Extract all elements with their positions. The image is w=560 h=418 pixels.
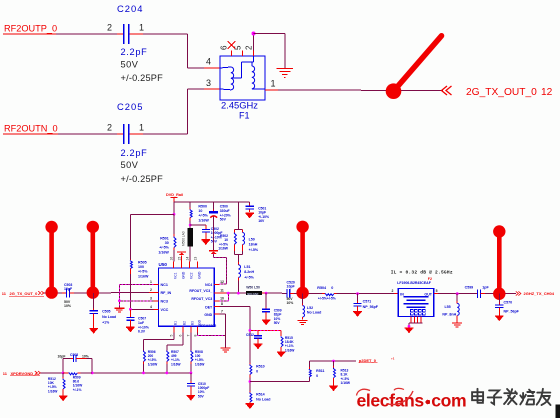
svg-text:50V: 50V (198, 394, 205, 398)
svg-text:1/16W: 1/16W (171, 362, 181, 366)
capacitor C508 (series) (58, 353, 89, 362)
wire bead to IC pin 14 (189, 246, 191, 261)
wire R504 to filter F2 (337, 293, 399, 295)
capacitor C510 (187, 373, 209, 399)
capacitor C502 (190, 225, 222, 244)
svg-text:2.2pF: 2.2pF (121, 47, 148, 57)
ground flat for NC pins (114, 307, 124, 309)
svg-text:+/-0.25PF: +/-0.25PF (121, 73, 164, 83)
ground (277, 69, 294, 78)
svg-text:7: 7 (187, 335, 191, 337)
wire IC ground pins (198, 314, 226, 348)
svg-text:+/-10%: +/-10% (138, 325, 149, 329)
wire IC bottom pins to resistors (144, 333, 191, 350)
wire F2 out (434, 292, 477, 295)
wire to R505 branch (130, 214, 174, 259)
wire F1 pin2 to ground net (253, 34, 255, 51)
resistor R515 (281, 336, 295, 353)
capacitor C501 (245, 202, 269, 223)
svg-text:100: 100 (138, 265, 144, 269)
filter F2 ground pins (408, 316, 423, 327)
capacitor C205 (107, 101, 163, 184)
svg-text:1/16W: 1/16W (138, 274, 149, 278)
svg-text:1/16W: 1/16W (285, 348, 295, 352)
svg-text:1/16W: 1/16W (195, 362, 205, 366)
svg-text:IL = 0.32 dB @ 2.5GHz: IL = 0.32 dB @ 2.5GHz (391, 269, 453, 275)
svg-text:C204: C204 (117, 3, 143, 14)
ground for R513 (329, 386, 338, 391)
svg-text:R514: R514 (256, 393, 265, 397)
svg-text:2: 2 (245, 45, 254, 50)
svg-text:10pF: 10pF (58, 354, 66, 358)
capacitor C520 (series) (287, 280, 296, 304)
ground for IC (221, 347, 231, 349)
svg-text:18nH: 18nH (249, 243, 258, 247)
wire bead to C520 (262, 292, 287, 295)
resistor R513 (334, 361, 351, 386)
svg-text:+/-5%: +/-5% (198, 214, 208, 218)
svg-text:C508: C508 (70, 353, 78, 357)
svg-text:F2: F2 (428, 277, 432, 281)
svg-text:50V: 50V (274, 321, 281, 325)
svg-text:B2: B2 (183, 321, 187, 325)
IC top pin stubs 16 15 14 13 (169, 257, 201, 279)
svg-text:11: 11 (220, 289, 224, 293)
wire DET pin 8 (220, 307, 252, 363)
wire R501 to IC pin 16 (173, 250, 175, 262)
resistor R502 and inductor L50 parallel (218, 202, 259, 255)
svg-text:F1: F1 (239, 111, 250, 121)
resistor R500 (190, 202, 209, 222)
ground for L52 (298, 321, 308, 325)
svg-text:6: 6 (179, 335, 183, 337)
wire XPDRVGND rail (92, 372, 192, 375)
highlight marker 2 (87, 221, 99, 299)
svg-text:NP_56pF: NP_56pF (504, 310, 520, 314)
svg-text:C571: C571 (363, 299, 372, 303)
svg-text:No Load: No Load (256, 397, 270, 401)
svg-text:C205: C205 (117, 101, 143, 112)
wire F1 pin1 to 2G_TX_OUT_0 (265, 89, 443, 92)
svg-text:5: 5 (234, 45, 243, 50)
svg-text:DVD_Rail: DVD_Rail (166, 193, 183, 197)
svg-text:VC2: VC2 (189, 272, 193, 279)
svg-text:0: 0 (316, 374, 318, 378)
svg-text:10: 10 (198, 209, 202, 213)
svg-text:3: 3 (206, 78, 211, 88)
svg-text:10pF: 10pF (64, 287, 73, 291)
inductor L52 (303, 293, 322, 319)
svg-text:GND: GND (198, 271, 202, 279)
wire power bus (174, 202, 250, 214)
svg-text:0: 0 (331, 286, 333, 290)
svg-text:13: 13 (194, 257, 198, 261)
IC left pin stubs 1 2 3 4 (150, 280, 171, 312)
svg-text:XPDRVGND_C: XPDRVGND_C (11, 371, 39, 376)
ground for L55 (452, 322, 462, 324)
resistor R512 (48, 373, 65, 396)
wire C205 to F1 pin 3 (129, 89, 220, 134)
capacitor C204 (107, 3, 163, 83)
capacitor C571 (354, 294, 379, 312)
svg-text:2GHZ_TX_CH04: 2GHZ_TX_CH04 (524, 291, 555, 296)
capacitor C509 (262, 293, 282, 325)
resistor R501 (158, 214, 176, 254)
svg-text:com: com (431, 390, 466, 410)
wire R505 to VCC pin (129, 274, 131, 309)
ground for C511 (254, 344, 263, 349)
highlight marker 4 (493, 225, 505, 300)
svg-text:2: 2 (150, 288, 152, 292)
capacitor C505 (89, 293, 116, 329)
svg-text:5: 5 (436, 289, 438, 293)
ground for C505 (89, 329, 98, 334)
wire VCC pin 4 (129, 308, 154, 317)
svg-text:6.3V: 6.3V (138, 330, 146, 334)
ground for C570 (495, 316, 504, 321)
power flag at IC pin 15 (177, 252, 186, 262)
svg-text:+/-5%: +/-5% (249, 248, 259, 252)
resistor R510 (250, 363, 265, 378)
svg-text:No Load: No Load (307, 311, 321, 315)
svg-text:NOLOAD: NOLOAD (247, 292, 258, 296)
off-page connector 2GHZ_TX_CH04 (516, 291, 555, 296)
svg-text:C505: C505 (102, 309, 110, 313)
svg-text:15: 15 (177, 257, 181, 261)
filter F2 LF1906 (392, 277, 438, 316)
svg-text:W50 L50: W50 L50 (246, 286, 260, 290)
svg-text:2.2pF: 2.2pF (121, 148, 148, 158)
svg-text:1: 1 (139, 123, 144, 133)
resistor R507 (167, 350, 182, 373)
svg-text:L51: L51 (244, 265, 250, 269)
wire NC4 pin 12 loop to power (214, 254, 227, 284)
svg-text:L50: L50 (249, 238, 255, 242)
svg-text:C500: C500 (220, 205, 228, 209)
svg-text:LF1906-B2R45CEAF: LF1906-B2R45CEAF (397, 281, 432, 285)
svg-text:B1: B1 (174, 321, 178, 325)
svg-text:M500 LA0: M500 LA0 (181, 231, 185, 246)
ground for C502 (202, 240, 211, 245)
svg-text:L55: L55 (444, 305, 450, 309)
capacitor C599 (series) (465, 285, 490, 298)
net label 11 2G_TX_OUT_0 (2, 291, 44, 296)
svg-text:1uF: 1uF (138, 321, 144, 325)
power flag for C500/NC4 net (209, 250, 218, 252)
svg-text:GND: GND (204, 313, 212, 317)
svg-text:1pF: 1pF (482, 285, 489, 289)
IC U50 (159, 262, 217, 328)
wire pin 10 loop (220, 293, 229, 301)
svg-text:RFOUT_VC3: RFOUT_VC3 (191, 297, 212, 301)
resistor R509 (63, 373, 92, 392)
inductor L55 (442, 294, 459, 323)
svg-text:1/16W: 1/16W (148, 362, 158, 366)
svg-text:10%: 10% (287, 301, 294, 305)
svg-text:1: 1 (139, 23, 144, 33)
svg-text:C507: C507 (138, 317, 146, 321)
svg-text:NC1: NC1 (161, 283, 168, 287)
svg-text:R505: R505 (138, 261, 147, 265)
filter F1 2.45GHz (206, 41, 276, 120)
ground for C510 (187, 396, 196, 401)
ferrite bead W50 (246, 286, 262, 296)
resistor R505 (130, 260, 149, 279)
svg-text:14: 14 (185, 257, 189, 261)
logo chinese characters (472, 389, 550, 405)
svg-text:50V: 50V (121, 160, 139, 170)
svg-text:GND: GND (181, 271, 185, 279)
IC bottom pin stubs (170, 319, 202, 336)
wire junction to ground (254, 34, 285, 69)
svg-text:C570: C570 (504, 301, 513, 305)
wire R500 to bead (189, 221, 192, 229)
svg-text:10pF: 10pF (287, 284, 296, 288)
svg-text:+/-1%: +/-1% (73, 388, 82, 392)
svg-text:+/-5%: +/-5% (244, 275, 254, 279)
highlight marker (red annotation) (386, 36, 442, 99)
black corner mark (556, 405, 560, 418)
ground for R512 (59, 396, 68, 401)
resistor R506 (144, 350, 159, 373)
wire XPDRVGND input (41, 359, 94, 375)
net label RF2OUTN_0 (3, 124, 58, 134)
svg-text:10%: 10% (64, 304, 72, 308)
resistor R504 (317, 286, 336, 301)
svg-text:8: 8 (221, 302, 223, 306)
svg-text:+/-5%: +/-5% (159, 246, 169, 250)
svg-text:NC3: NC3 (161, 300, 168, 304)
svg-text:+/-20%: +/-20% (220, 213, 231, 217)
power flag DVD_Rail (166, 193, 183, 202)
svg-text:2: 2 (392, 289, 394, 293)
wire C599 to output (480, 293, 516, 295)
node junction (252, 32, 256, 36)
wire C520 to R504 (290, 292, 322, 294)
svg-text:+/-5%: +/-5% (138, 270, 148, 274)
svg-text:1/16W: 1/16W (48, 389, 58, 393)
svg-text:6: 6 (220, 45, 229, 50)
resistor R511 (309, 361, 324, 378)
wire input to C503 (44, 292, 66, 294)
wire RF2OUTN to C205 (58, 133, 123, 135)
wire DET branch (250, 330, 281, 336)
capacitor C507 (126, 317, 148, 334)
ground for R514 (246, 404, 255, 409)
svg-text:U50: U50 (159, 262, 168, 267)
svg-text:12: 12 (220, 280, 224, 284)
capacitor C570 (495, 294, 519, 316)
svg-text:+1: +1 (391, 357, 395, 361)
svg-text:R500: R500 (198, 205, 207, 209)
capacitor C503 (series) (64, 283, 73, 308)
svg-text:No Load: No Load (102, 315, 116, 319)
svg-text:2G_TX_OUT_0: 2G_TX_OUT_0 (10, 291, 39, 296)
svg-text:1/16W: 1/16W (341, 381, 351, 385)
svg-text:16V: 16V (258, 219, 265, 223)
svg-text:RFOUT_VC3_: RFOUT_VC3_ (189, 289, 212, 293)
highlight marker 3 (296, 221, 308, 299)
wire NC1/NC3 loop (118, 284, 154, 308)
inductor L51 (238, 255, 254, 294)
wire main output pin 11 (220, 292, 246, 295)
svg-text:4: 4 (150, 305, 152, 309)
svg-text:R504: R504 (317, 286, 327, 290)
svg-text:2G_TX_OUT_0: 2G_TX_OUT_0 (466, 87, 537, 98)
svg-text:1/16W: 1/16W (158, 250, 169, 254)
svg-text:5: 5 (170, 335, 174, 337)
wire C503 to IC pin 2 RF_IN (69, 291, 153, 294)
node bus junction (173, 213, 176, 216)
svg-text:2.45GHz: 2.45GHz (221, 100, 258, 111)
node C571 junction (356, 292, 359, 295)
svg-text:VC1: VC1 (173, 272, 177, 279)
svg-text:0: 0 (256, 369, 258, 373)
svg-text:NC4: NC4 (205, 283, 212, 287)
wire R510 junction (249, 377, 310, 391)
wire RF2OUTP to C204 (56, 33, 123, 35)
svg-text:NP_56pF: NP_56pF (363, 305, 379, 309)
svg-text:p2DET_0: p2DET_0 (359, 358, 377, 363)
svg-text:RF2OUTN_0: RF2OUTN_0 (4, 124, 58, 134)
svg-text:330uF: 330uF (220, 209, 230, 213)
ground for F2 (405, 328, 414, 333)
svg-text:50V: 50V (220, 218, 227, 222)
svg-text:NP_8nH: NP_8nH (442, 312, 456, 316)
svg-text:1/16W: 1/16W (218, 247, 229, 251)
svg-text:RF_IN: RF_IN (161, 291, 172, 295)
svg-text:VCC: VCC (161, 308, 169, 312)
net label RF2OUTP_0 (3, 24, 57, 34)
ferrite bead FB500 (181, 228, 193, 246)
svg-text:3: 3 (150, 296, 152, 300)
svg-text:R511: R511 (316, 369, 324, 373)
svg-text:C599: C599 (465, 285, 474, 289)
ground for R515 (277, 352, 286, 357)
logo elecfans.com (357, 388, 467, 410)
svg-text:30: 30 (165, 241, 169, 245)
svg-text:50V: 50V (121, 60, 139, 70)
svg-text:10%: 10% (82, 354, 89, 358)
svg-text:1: 1 (150, 280, 152, 284)
svg-text:7: 7 (221, 310, 223, 314)
svg-text:C512: C512 (246, 333, 254, 337)
svg-text:10: 10 (220, 296, 224, 300)
svg-text:elecfans: elecfans (357, 390, 425, 410)
svg-text:12: 12 (541, 87, 553, 98)
ground for C501 (245, 213, 254, 218)
ground for C509 (262, 320, 271, 325)
svg-text:8.2nH: 8.2nH (244, 270, 254, 274)
ground for C507 (126, 327, 135, 332)
capacitor C511 (246, 333, 262, 344)
svg-text:R501: R501 (160, 237, 169, 241)
svg-text:GD: GD (198, 319, 202, 325)
wire DET output (309, 360, 356, 363)
svg-text:R510: R510 (256, 365, 265, 369)
svg-text:2: 2 (107, 123, 112, 133)
svg-text:DET: DET (205, 305, 213, 309)
off-page connector 2G_TX_OUT_0 12 (442, 86, 553, 98)
svg-text:+/-0.25PF: +/-0.25PF (121, 174, 164, 184)
resistor R508 (191, 350, 205, 373)
svg-text:2: 2 (107, 23, 112, 33)
ground for C571 (353, 312, 362, 317)
resistor R514 (250, 391, 271, 404)
svg-text:16: 16 (169, 257, 173, 261)
net label 11 XPDRVGND_C (3, 371, 41, 376)
svg-text:8: 8 (194, 335, 198, 337)
capacitor C500 (polarized) (209, 202, 230, 251)
svg-text:4: 4 (206, 57, 211, 67)
IC right pin stubs 12 11 10 8 7 (189, 280, 224, 317)
svg-text:L52: L52 (307, 306, 313, 310)
svg-text:+1%: +1% (102, 321, 110, 325)
svg-text:B3: B3 (191, 321, 195, 325)
wire C204 to F1 pin 4 (129, 34, 220, 68)
svg-text:1: 1 (270, 79, 275, 89)
net label p2DET_0 (359, 357, 395, 363)
svg-text:RF2OUTP_0: RF2OUTP_0 (4, 24, 57, 34)
svg-text:1/16W: 1/16W (198, 218, 209, 222)
highlight marker 1 (45, 221, 57, 299)
svg-text:+/-5%+/-5%: +/-5%+/-5% (318, 297, 336, 301)
